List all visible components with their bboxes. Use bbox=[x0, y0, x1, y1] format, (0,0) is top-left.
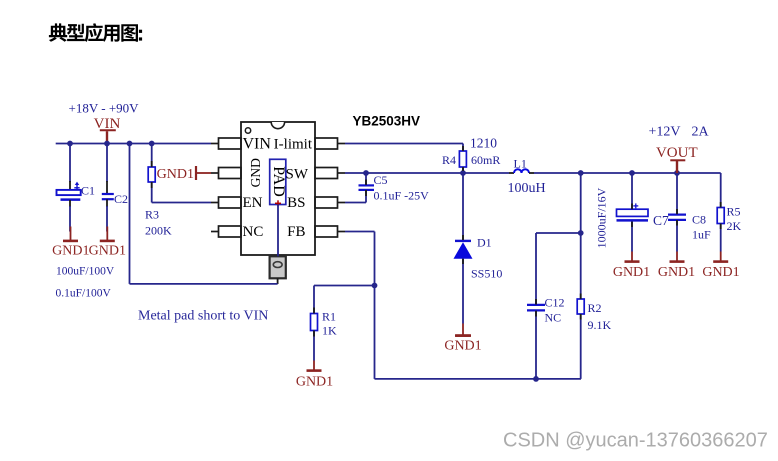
svg-text:GND1: GND1 bbox=[444, 339, 481, 354]
inductor L1 bbox=[509, 169, 534, 173]
pin name EN bbox=[243, 195, 263, 211]
svg-text:VOUT: VOUT bbox=[656, 145, 698, 161]
net label VOUT with underline bbox=[656, 145, 698, 161]
pad pin cross (red) bbox=[275, 200, 281, 206]
svg-text:FB: FB bbox=[287, 224, 305, 240]
pin name GND (rotated) bbox=[248, 158, 263, 187]
svg-text:VIN: VIN bbox=[243, 136, 272, 153]
wire FB net bbox=[345, 232, 375, 286]
svg-text:YB2503HV: YB2503HV bbox=[353, 114, 421, 129]
junction dot FB bbox=[372, 283, 378, 289]
svg-text:L1: L1 bbox=[514, 157, 527, 171]
svg-text:GND1: GND1 bbox=[52, 244, 89, 259]
pin name FB bbox=[287, 224, 305, 240]
pin FB (right pin box) bbox=[315, 226, 345, 237]
pin BS (right pin box) bbox=[315, 197, 345, 208]
label C8 bbox=[692, 213, 706, 227]
junction dot output at R2 branch bbox=[578, 170, 584, 176]
wire VIN label stub bbox=[106, 131, 108, 143]
exposed pad tab with 0 bbox=[270, 256, 286, 278]
label L1 bbox=[514, 157, 527, 171]
svg-text:GND1: GND1 bbox=[89, 244, 126, 259]
label 100uF/100V bbox=[56, 266, 115, 278]
wire R3 to EN bbox=[152, 202, 211, 204]
ground GND1 under R1 bbox=[307, 361, 322, 371]
capacitor C7 (electrolytic) bbox=[617, 173, 649, 252]
wire VOUT stub bbox=[676, 161, 678, 173]
svg-text:C7: C7 bbox=[653, 213, 669, 228]
svg-text:R4: R4 bbox=[442, 153, 456, 167]
label +18V - +90V bbox=[69, 101, 140, 116]
svg-text:60mR: 60mR bbox=[471, 153, 500, 167]
pin name I-limit bbox=[274, 137, 313, 153]
label 2K bbox=[727, 219, 742, 233]
component pin stubs (black) bbox=[152, 146, 721, 337]
svg-text:+12V: +12V bbox=[649, 125, 681, 140]
svg-text:1K: 1K bbox=[322, 324, 337, 338]
net label GND1 (D1) bbox=[444, 339, 481, 354]
label SS510 bbox=[471, 267, 502, 281]
svg-text:D1: D1 bbox=[477, 236, 492, 250]
label 100uH bbox=[508, 181, 546, 196]
wire pad to tab bbox=[277, 205, 279, 257]
wire metal-pad short (vertical+horizontal) bbox=[130, 144, 278, 284]
label C12 bbox=[545, 296, 565, 310]
svg-text:CSDN @yucan-13760366207: CSDN @yucan-13760366207 bbox=[503, 430, 768, 452]
pad box PAD bbox=[270, 159, 286, 204]
svg-text:NC: NC bbox=[243, 224, 264, 240]
label 9.1K bbox=[588, 318, 612, 332]
svg-text:I-limit: I-limit bbox=[274, 137, 313, 153]
pin name NC bbox=[243, 224, 264, 240]
wire SW to D1 bbox=[462, 173, 464, 240]
capacitor C1 (electrolytic) bbox=[57, 144, 81, 232]
junction dot C12 tee bbox=[578, 230, 584, 236]
label Metal pad short to VIN bbox=[138, 309, 268, 324]
watermark CSDN bbox=[503, 430, 768, 452]
label 0.1uF/100V bbox=[56, 288, 112, 300]
net label GND1 (R5) bbox=[702, 265, 739, 280]
diode D1 bbox=[454, 241, 473, 324]
label 1210 bbox=[470, 136, 497, 151]
capacitor C5 bbox=[345, 173, 374, 203]
svg-text:BS: BS bbox=[287, 195, 305, 211]
resistor R1 bbox=[311, 314, 318, 361]
svg-text:C2: C2 bbox=[114, 192, 128, 206]
ground GND1 under D1 bbox=[455, 324, 471, 336]
svg-text:200K: 200K bbox=[145, 224, 172, 238]
net label VIN with underline bbox=[94, 116, 121, 132]
label R3 bbox=[145, 208, 159, 222]
svg-text:EN: EN bbox=[243, 195, 263, 211]
pin NC (left pin box) bbox=[211, 226, 241, 237]
IC U1 YB2503HV body bbox=[241, 122, 315, 255]
svg-text:R3: R3 bbox=[145, 208, 159, 222]
label 1K bbox=[322, 324, 337, 338]
svg-text:R5: R5 bbox=[727, 205, 741, 219]
svg-text:GND1: GND1 bbox=[658, 265, 695, 280]
resistor R5 bbox=[717, 173, 724, 252]
label NC bbox=[545, 311, 562, 325]
svg-text:R2: R2 bbox=[588, 301, 602, 315]
wire FB to R1 bbox=[314, 286, 375, 314]
ground GND1 under R5 bbox=[713, 252, 728, 262]
junction dot C8/VOUT bbox=[674, 170, 680, 176]
junction dot C7 bbox=[629, 170, 635, 176]
ground GND1 under C7 bbox=[625, 252, 640, 262]
net label GND1 (C7) bbox=[613, 265, 650, 280]
title text 典型应用图: bbox=[49, 23, 142, 42]
pin name VIN bbox=[243, 136, 272, 153]
svg-text:C12: C12 bbox=[545, 296, 565, 310]
resistor R2 bbox=[577, 299, 584, 379]
wire VIN rail bbox=[56, 143, 211, 145]
label R1 bbox=[322, 310, 336, 324]
junction dots on rail bbox=[67, 141, 155, 147]
label R4 bbox=[442, 153, 456, 167]
pin EN (left pin box) bbox=[211, 197, 241, 208]
svg-text:0.1uF -25V: 0.1uF -25V bbox=[374, 189, 430, 203]
capacitor C2 bbox=[102, 144, 114, 232]
label +12V 2A bbox=[649, 125, 710, 140]
pin name SW bbox=[286, 167, 309, 183]
ground GND1 under C8 bbox=[670, 252, 685, 262]
pin name BS bbox=[287, 195, 305, 211]
label C2 bbox=[114, 192, 128, 206]
svg-text:R1: R1 bbox=[322, 310, 336, 324]
svg-text:C1: C1 bbox=[81, 184, 95, 198]
label 60mR bbox=[471, 153, 500, 167]
wire output to R2 branch bbox=[580, 173, 582, 299]
svg-text:0.1uF/100V: 0.1uF/100V bbox=[56, 288, 112, 300]
svg-text:GND1: GND1 bbox=[296, 375, 333, 390]
junction dot bottom rail C12 bbox=[533, 376, 539, 382]
pin GND (left pin box) bbox=[211, 168, 241, 179]
label R2 bbox=[588, 301, 602, 315]
net label GND1 (R1) bbox=[296, 375, 333, 390]
net label GND1 (C8) bbox=[658, 265, 695, 280]
svg-text:2K: 2K bbox=[727, 219, 742, 233]
label 0.1uF -25V bbox=[374, 189, 430, 203]
pin SW (right pin box) bbox=[315, 168, 345, 179]
resistor R3 bbox=[148, 144, 155, 203]
svg-text:1000uF/16V: 1000uF/16V bbox=[594, 187, 608, 248]
svg-text:SS510: SS510 bbox=[471, 267, 502, 281]
ground GND1 under C2 bbox=[100, 227, 115, 241]
svg-text:1uF: 1uF bbox=[692, 228, 711, 242]
power port GND1 at GND pin bbox=[196, 166, 211, 180]
net label GND1 (C1) bbox=[52, 244, 89, 259]
label YB2503HV bbox=[353, 114, 421, 129]
svg-text:C5: C5 bbox=[374, 173, 388, 187]
pin name PAD (rotated) bbox=[270, 166, 287, 197]
svg-text:+18V - +90V: +18V - +90V bbox=[69, 101, 140, 116]
svg-text:GND1: GND1 bbox=[613, 265, 650, 280]
svg-text:SW: SW bbox=[286, 167, 309, 183]
pin 4 VIN (left pin box) bbox=[211, 138, 241, 149]
wire I-limit to R4 bbox=[345, 144, 463, 152]
capacitor C12 bbox=[527, 233, 581, 379]
wire tab stub bbox=[277, 278, 279, 284]
label 1000uF/16V (rotated) bbox=[594, 187, 608, 248]
label 1uF bbox=[692, 228, 711, 242]
junction dot SW at C5 bbox=[363, 170, 369, 176]
label C1 bbox=[81, 184, 95, 198]
junction dot SW at R4 bbox=[460, 170, 466, 176]
svg-text:NC: NC bbox=[545, 311, 562, 325]
wire FB down to bottom rail bbox=[375, 286, 582, 379]
capacitor C8 bbox=[668, 173, 686, 252]
pin I-limit (right pin box) bbox=[315, 138, 345, 149]
svg-text:1210: 1210 bbox=[470, 136, 497, 151]
svg-text:GND: GND bbox=[248, 158, 263, 187]
wire SW line bbox=[345, 172, 721, 174]
svg-text:GND1: GND1 bbox=[157, 167, 194, 182]
label C5 bbox=[374, 173, 388, 187]
label D1 bbox=[477, 236, 492, 250]
svg-text:2A: 2A bbox=[692, 125, 710, 140]
net label GND1 (C2) bbox=[89, 244, 126, 259]
svg-text:Metal pad short to VIN: Metal pad short to VIN bbox=[138, 309, 268, 324]
net label GND1 (GND pin) bbox=[157, 167, 194, 182]
ground GND1 under C1 bbox=[63, 227, 78, 241]
svg-text:100uF/100V: 100uF/100V bbox=[56, 266, 115, 278]
svg-text:GND1: GND1 bbox=[702, 265, 739, 280]
svg-text:100uH: 100uH bbox=[508, 181, 546, 196]
svg-text:C8: C8 bbox=[692, 213, 706, 227]
resistor R4 bbox=[459, 151, 466, 173]
label C7 bbox=[653, 213, 669, 228]
label 200K bbox=[145, 224, 172, 238]
label R5 bbox=[727, 205, 741, 219]
svg-text:9.1K: 9.1K bbox=[588, 318, 612, 332]
